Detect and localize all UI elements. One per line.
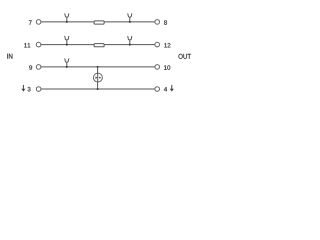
terminal 12 label (164, 43, 170, 47)
terminal 3 circle (36, 87, 41, 92)
ground arrow left (21, 85, 25, 92)
junction row3 arrester tap (97, 66, 99, 68)
junction row1 left (66, 21, 68, 23)
disconnect fork row1 left (64, 14, 69, 22)
disconnect fork row2 right (127, 36, 132, 44)
disconnect fork row1 right (127, 14, 132, 22)
wire row1 (41, 21, 155, 23)
terminal 11 label (24, 43, 30, 47)
terminal 8 label (164, 20, 167, 24)
wire row3 (41, 66, 155, 68)
terminal 11 circle (36, 42, 41, 47)
junction row1 right (129, 21, 131, 23)
junction row4 (97, 88, 99, 90)
junction row2 right (129, 44, 131, 46)
terminal 10 circle (155, 65, 160, 70)
terminal 9 label (29, 65, 32, 69)
resistor row1 (94, 21, 104, 24)
gas discharge arrester F1 (93, 73, 102, 82)
disconnect fork row2 left (64, 36, 69, 44)
junction row3 fork (66, 66, 68, 68)
terminal 3 label (28, 87, 31, 91)
terminal 8 circle (155, 20, 160, 25)
terminal 10 label (164, 65, 170, 69)
wire row2 (41, 44, 155, 46)
disconnect fork row3 (64, 59, 69, 67)
junction row2 left (66, 44, 68, 46)
wire arrester vertical (97, 67, 99, 89)
terminal 12 circle (155, 42, 160, 47)
terminal 9 circle (36, 65, 41, 70)
terminal 7 circle (36, 20, 41, 25)
wire row4 (41, 88, 155, 90)
terminal 4 circle (155, 87, 160, 92)
terminal 4 label (164, 87, 167, 91)
terminal 7 label (29, 20, 32, 24)
label OUT (178, 54, 190, 59)
ground arrow right (170, 85, 174, 92)
label IN (7, 54, 12, 59)
resistor row2 (94, 44, 104, 47)
